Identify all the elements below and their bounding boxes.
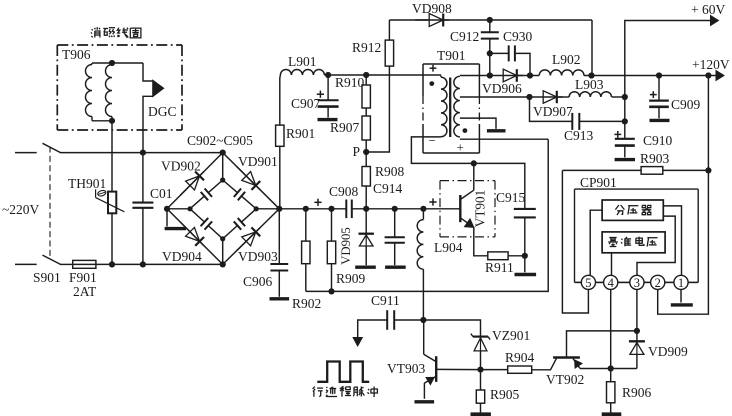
node inner bottom <box>220 236 225 241</box>
node bridge left <box>164 206 170 212</box>
wire degauss bottom to TH901 <box>111 121 113 192</box>
svg-text:C906: C906 <box>243 274 273 289</box>
wire AC line top-left stub <box>15 152 37 154</box>
pin 1 of CP901 <box>674 275 688 289</box>
node inner left <box>187 206 192 211</box>
svg-text:4: 4 <box>608 276 615 290</box>
transistor VT902 (PNP) <box>553 356 580 358</box>
svg-text:VT901: VT901 <box>473 190 488 227</box>
svg-text:R911: R911 <box>485 260 514 275</box>
wire secondary bottom to feedback <box>460 138 548 140</box>
svg-text:5: 5 <box>585 276 591 290</box>
resistor R905 <box>480 370 482 390</box>
diode VD903 <box>236 228 260 251</box>
wire C911 left with arrow <box>358 320 388 339</box>
wire reference to pin4 <box>611 253 613 276</box>
svg-text:C902~C905: C902~C905 <box>187 133 253 148</box>
label 消磁线圈 (degaussing coil) <box>92 29 93 30</box>
phase dot primary <box>429 81 434 86</box>
capacitor C904 (inner bottom-left) <box>190 209 204 222</box>
node VD906 out <box>527 72 533 78</box>
wire emitter down to R911 <box>474 227 488 256</box>
node P <box>363 149 369 155</box>
inductor L903 <box>569 92 611 97</box>
transistor VT903 (PNP) <box>435 356 437 382</box>
svg-text:C910: C910 <box>643 133 673 148</box>
phase dot secondary <box>463 128 468 133</box>
capacitor C01 <box>132 202 153 204</box>
degaussing coil T906 winding right <box>106 65 112 117</box>
capacitor C910 <box>624 121 626 138</box>
capacitor C902 (inner top-left) <box>190 196 204 209</box>
wire pin1 to ground <box>680 290 682 303</box>
wire fuse to bridge bottom <box>96 263 223 265</box>
polarity + of C908 <box>314 201 321 203</box>
svg-text:L903: L903 <box>575 77 604 92</box>
ground VT903 <box>415 400 435 403</box>
thermistor TH901 <box>108 192 116 214</box>
bridge inner stubs <box>222 153 224 180</box>
svg-text:VD903: VD903 <box>238 249 278 264</box>
wire collector up <box>473 163 475 190</box>
IC CP901 box <box>574 189 576 282</box>
wire secondary top to VD906 node <box>460 75 490 77</box>
svg-text:TH901: TH901 <box>68 176 106 191</box>
switch S901 bottom blade <box>43 255 61 264</box>
node L902 out <box>588 72 594 78</box>
node VD909 top <box>634 328 640 334</box>
capacitor C913 branch <box>530 97 573 121</box>
capacitor C906 <box>278 209 280 264</box>
bridge outer diamond wires <box>167 153 279 265</box>
node inner right <box>254 206 259 211</box>
svg-text:DGC: DGC <box>148 104 177 119</box>
diode VD907 <box>529 96 563 98</box>
node TH901 bottom <box>109 261 115 267</box>
svg-text:C913: C913 <box>564 128 594 143</box>
transistor VT901 (NPN) <box>459 195 461 222</box>
node R902 top <box>303 206 309 212</box>
ground C915 <box>515 273 537 276</box>
ground at bridge left <box>166 209 168 227</box>
wire TH901 to bottom AC line <box>111 213 113 264</box>
pin 4 of CP901 <box>604 275 618 289</box>
capacitor C915 <box>514 208 536 210</box>
wire VD908 line <box>389 19 428 21</box>
svg-text:VD902: VD902 <box>161 159 201 174</box>
inductor L904 <box>422 209 424 220</box>
wire feedback line <box>306 139 548 291</box>
wire +120V rail <box>584 75 716 77</box>
svg-text:L902: L902 <box>552 52 581 67</box>
svg-text:3: 3 <box>634 276 640 290</box>
arrow +60V <box>711 16 719 26</box>
wire C912 column <box>489 20 491 32</box>
T901 core <box>449 78 451 138</box>
node VD906 in <box>487 72 493 78</box>
svg-text:−: − <box>429 133 436 148</box>
node C912 top <box>487 17 493 23</box>
wire +60V riser <box>625 21 712 123</box>
svg-text:R908: R908 <box>375 164 405 179</box>
svg-text:C911: C911 <box>371 293 400 308</box>
svg-text:VD908: VD908 <box>412 1 452 16</box>
capacitor C905 (inner bottom-right) <box>223 226 238 239</box>
pin 2 of CP901 <box>651 275 665 289</box>
resistor R906 <box>610 369 612 382</box>
T901 primary winding <box>441 77 447 137</box>
node C913 right <box>622 118 628 124</box>
polarity + of C907 <box>317 93 324 95</box>
wire VT903 base <box>436 368 480 370</box>
resistor R901 <box>279 75 282 125</box>
diode VD908 <box>415 19 449 21</box>
wire coil bottoms <box>92 120 112 122</box>
wire L903 out <box>612 96 625 98</box>
node R903 right <box>705 167 711 173</box>
connector arrow DGC <box>153 80 164 96</box>
node pin4/R906/emitter <box>608 365 614 371</box>
wire L901 right to T901 primary <box>324 74 441 76</box>
diode VD909 (cathode up) <box>636 331 638 341</box>
capacitor C908 (series) <box>345 200 347 219</box>
wire pin3 down <box>636 290 638 331</box>
svg-text:VT903: VT903 <box>387 361 425 376</box>
node collector/secondary+ <box>471 160 477 166</box>
degaussing box (dash-dot border) <box>57 44 182 46</box>
svg-text:1: 1 <box>678 276 684 290</box>
node R909 bottom <box>328 288 334 294</box>
capacitor C911 <box>386 310 388 330</box>
node bridge top <box>220 150 226 156</box>
svg-text:L901: L901 <box>288 54 317 69</box>
capacitor C912 <box>481 31 499 33</box>
capacitor C909 <box>658 76 660 101</box>
svg-text:R901: R901 <box>286 126 315 141</box>
T901 secondary winding <box>454 76 460 137</box>
wire VT902 collector line <box>567 331 637 357</box>
diode VD906 <box>489 75 523 77</box>
wire coil tops <box>92 62 143 64</box>
diode VD905 (cathode up) <box>365 209 367 234</box>
wire rail C908 to VT901 base <box>352 208 461 210</box>
wire VD908 to +120 node <box>444 19 592 21</box>
svg-text:C912: C912 <box>450 29 479 44</box>
node R910 top <box>363 72 369 78</box>
wire pin4 down <box>610 290 612 369</box>
svg-text:L904: L904 <box>434 240 463 255</box>
polarity + near VT901 base <box>429 201 436 203</box>
wire top to C915 <box>474 163 525 209</box>
resistor R907 <box>365 108 367 116</box>
ground secondary tap <box>487 129 506 132</box>
resistor R911 <box>488 252 508 260</box>
inductor L902 <box>539 70 584 76</box>
wire divider to pin3 <box>637 216 675 275</box>
svg-text:T901: T901 <box>437 48 466 63</box>
svg-text:2: 2 <box>655 276 661 290</box>
node C01 bottom <box>140 261 146 267</box>
wire to L902 <box>518 75 540 77</box>
node C930 left <box>487 50 493 56</box>
capacitor C930 <box>490 52 509 54</box>
svg-text:R905: R905 <box>490 387 520 402</box>
node L903 out <box>622 94 628 100</box>
pin 3 of CP901 <box>630 275 644 289</box>
ground R905 <box>471 412 491 416</box>
wire down to L902 output <box>591 20 593 76</box>
svg-text:R903: R903 <box>640 151 670 166</box>
svg-text:VT902: VT902 <box>546 372 584 387</box>
wire VZ901 branch <box>423 320 480 336</box>
wire primary bottom <box>411 137 474 164</box>
resistor R908 <box>365 152 367 167</box>
wire secondary tap to VD907 <box>460 96 530 98</box>
node bridge bottom <box>220 261 226 267</box>
node coil bottom <box>109 118 115 124</box>
svg-text:VD906: VD906 <box>482 81 522 96</box>
resistor R909 <box>331 209 333 241</box>
node VD907 in <box>526 94 532 100</box>
wire +120V down to R903 node and pin2 loop <box>658 76 709 315</box>
transformer T901 box <box>423 63 479 65</box>
wire P to R912 column <box>366 66 389 152</box>
node base/VZ/R904/R905 <box>477 367 483 373</box>
wire C01 column top <box>142 153 144 203</box>
node R909 top <box>328 206 334 212</box>
node +120V right branch <box>705 72 711 78</box>
resistor R912 <box>385 40 393 66</box>
capacitor C907 <box>327 75 329 100</box>
svg-text:R912: R912 <box>352 40 381 55</box>
svg-text:CP901: CP901 <box>580 175 617 190</box>
svg-text:P: P <box>353 144 361 159</box>
svg-text:T906: T906 <box>62 47 91 62</box>
switch S901 top blade <box>43 143 61 152</box>
svg-text:R906: R906 <box>622 385 652 400</box>
svg-text:R909: R909 <box>336 271 366 286</box>
wire R903 left to pin5 loop <box>562 170 588 313</box>
svg-text:R904: R904 <box>505 350 535 365</box>
svg-text:F901: F901 <box>69 270 97 285</box>
wire AC line bottom-left stub <box>15 263 37 265</box>
svg-text:VD909: VD909 <box>648 344 688 359</box>
capacitor C903 (inner top-right) <box>223 180 238 193</box>
zener VZ901 <box>473 336 488 338</box>
svg-text:C930: C930 <box>503 29 533 44</box>
svg-text:2AT: 2AT <box>73 284 97 299</box>
ground C909 <box>650 119 670 122</box>
degaussing coil T906 winding left <box>86 65 93 117</box>
block 基准电压 (reference voltage) <box>602 232 665 253</box>
node C909 top <box>656 72 662 78</box>
node R911/C915 <box>522 253 528 259</box>
svg-text:+ 60V: + 60V <box>691 2 725 17</box>
diode VD902 <box>180 172 204 196</box>
svg-text:R902: R902 <box>292 296 321 311</box>
resistor R910 <box>365 75 367 85</box>
svg-text:VD901: VD901 <box>238 154 278 169</box>
svg-text:C915: C915 <box>496 190 526 205</box>
svg-text:S901: S901 <box>33 270 61 285</box>
polarity + of C909 <box>650 94 657 96</box>
pin 5 of CP901 <box>581 275 595 289</box>
svg-text:+: + <box>457 140 464 155</box>
ground pin1 <box>671 303 693 306</box>
node DGC to AC top line <box>140 150 146 156</box>
node coil top <box>109 60 115 66</box>
capacitor C914 body <box>394 209 396 237</box>
label 行逆程脉冲 (line retrace pulse) <box>313 387 315 390</box>
svg-text:VD907: VD907 <box>533 104 573 119</box>
svg-text:C909: C909 <box>671 97 701 112</box>
fuse F901 <box>73 260 96 268</box>
pulse waveform 行逆程脉冲 <box>317 362 369 382</box>
ground C910 <box>615 158 635 161</box>
svg-text:VZ901: VZ901 <box>492 328 530 343</box>
svg-text:C907: C907 <box>291 96 321 111</box>
resistor R904 <box>481 369 508 371</box>
wire C01 column bottom <box>142 208 144 265</box>
wire B+ rail from bridge to C908 <box>279 208 346 210</box>
svg-text:C914: C914 <box>373 181 403 196</box>
svg-text:C908: C908 <box>329 184 359 199</box>
wire to L903 <box>558 96 570 98</box>
wire AC top line to bridge <box>60 152 223 154</box>
block 分压器 (voltage divider) <box>602 200 663 220</box>
svg-text:~220V: ~220V <box>2 202 40 217</box>
node bridge right <box>276 206 282 212</box>
ground C914 <box>385 266 406 269</box>
node L904 top <box>420 206 426 212</box>
wire divider to pin5 <box>590 210 602 275</box>
svg-text:+120V: +120V <box>692 57 730 72</box>
switch S901 link (dashed) <box>49 147 51 258</box>
node inner top <box>220 177 225 182</box>
diode VD904 <box>180 222 204 246</box>
svg-text:C01: C01 <box>150 186 173 201</box>
svg-text:R910: R910 <box>335 75 365 90</box>
wire VT902 emitter row <box>580 368 637 370</box>
wire divider to pin1 <box>663 206 681 276</box>
polarity + of C910 <box>614 133 621 135</box>
ground VD905 <box>355 266 376 269</box>
wire bottom line to fuse <box>60 263 73 265</box>
ground C907 <box>318 118 338 121</box>
svg-text:VD905: VD905 <box>339 227 353 265</box>
wire secondary tap to ground <box>460 118 496 129</box>
node C914 top <box>392 206 398 212</box>
diode VD901 <box>236 166 260 190</box>
wire DGC connector <box>143 63 153 81</box>
polarity + primary top <box>430 67 437 69</box>
VT901 box (dash-dot) <box>440 180 495 182</box>
node C911/L904/VZ901 <box>420 317 426 323</box>
node R908/VD905 <box>363 206 369 212</box>
arrow +120V <box>716 71 724 81</box>
ground R906 <box>602 412 622 416</box>
resistor R902 <box>305 209 307 241</box>
resistor R903 <box>562 169 641 171</box>
svg-text:R907: R907 <box>330 120 360 135</box>
node L901/C907 <box>325 72 331 78</box>
ground C906 <box>270 297 290 300</box>
inductor L901 <box>280 70 324 76</box>
svg-text:VD904: VD904 <box>162 249 202 264</box>
